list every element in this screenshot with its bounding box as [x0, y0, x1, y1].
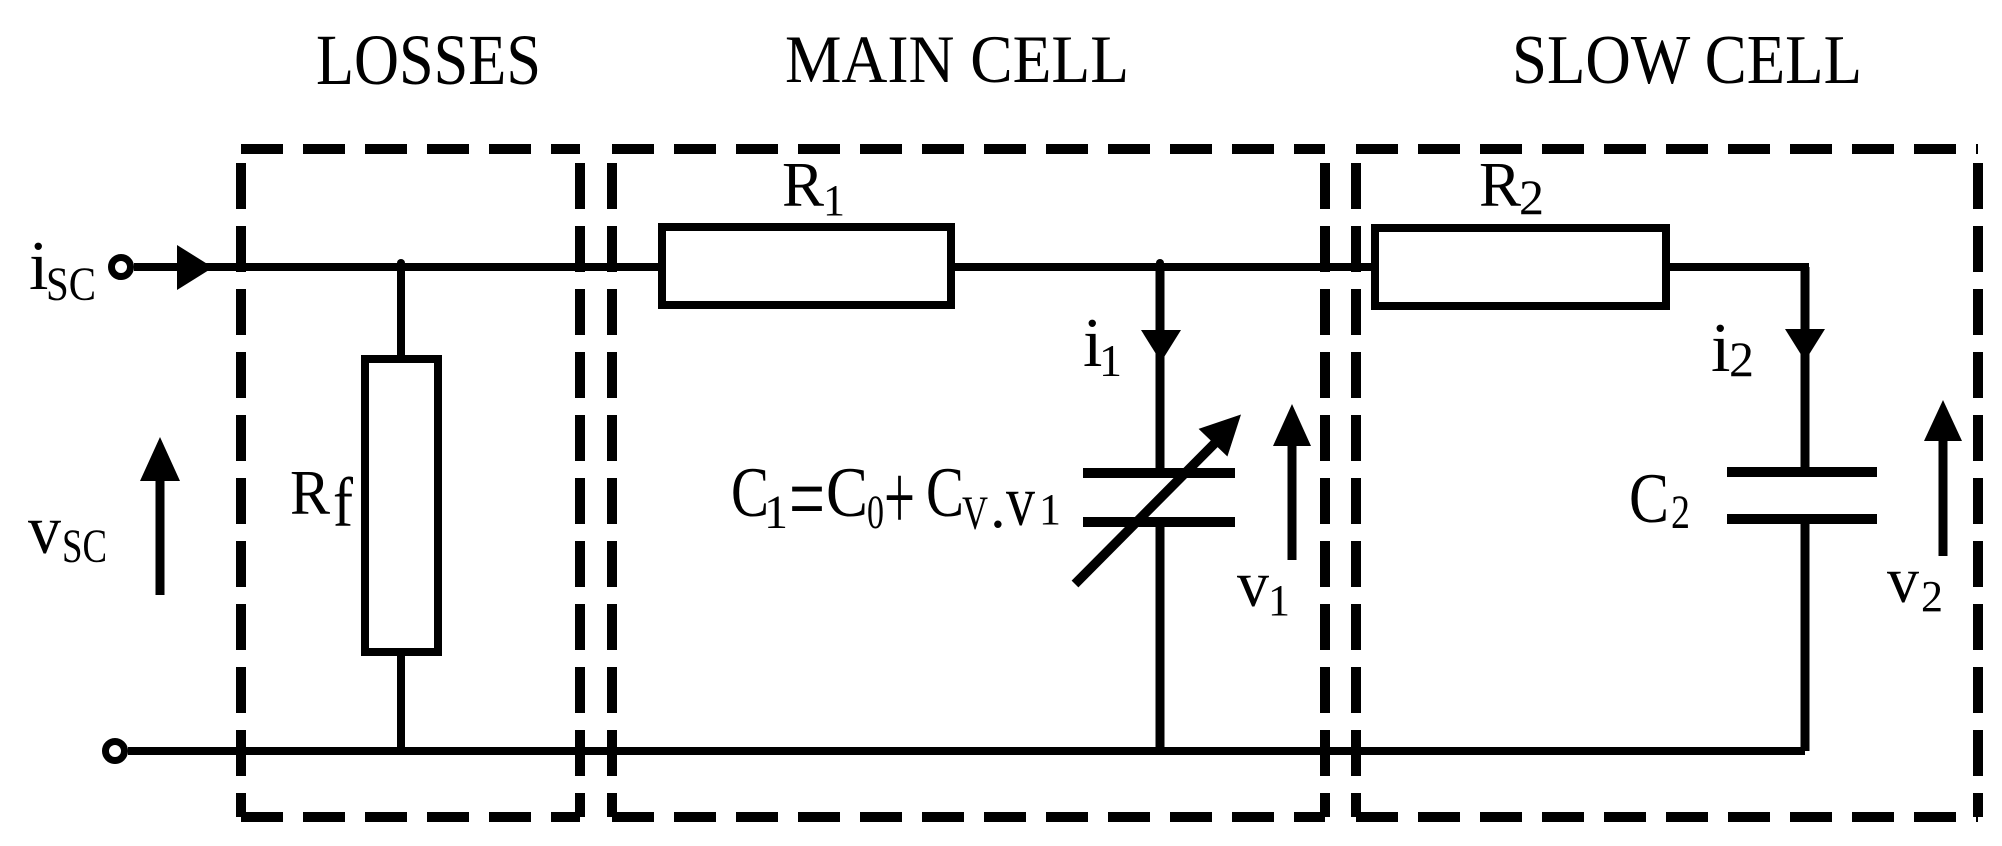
terminal top-left — [112, 258, 131, 277]
resistor Rf — [365, 359, 438, 652]
junction Rf node — [397, 259, 405, 267]
svg-text:1: 1 — [1268, 576, 1290, 625]
svg-text:1: 1 — [823, 176, 845, 225]
svg-text:SC: SC — [62, 520, 107, 573]
wire C2 upper — [1801, 267, 1810, 472]
svg-text:2: 2 — [1729, 331, 1754, 387]
junction C1 node — [1156, 259, 1164, 267]
wire top segment 2 — [951, 263, 1375, 271]
wire C1 lower — [1156, 522, 1165, 751]
capacitor C1 plate top — [1083, 468, 1235, 478]
svg-text:f: f — [333, 465, 354, 542]
svg-text:R: R — [782, 150, 824, 220]
svg-text:2: 2 — [1921, 572, 1943, 621]
arrow vSC — [156, 478, 165, 595]
arrow v2 — [1939, 438, 1948, 556]
capacitor C2 plate top — [1727, 467, 1877, 477]
svg-text:1: 1 — [1039, 485, 1061, 534]
svg-text:MAIN CELL: MAIN CELL — [785, 21, 1129, 97]
svg-text:v: v — [1887, 544, 1919, 617]
svg-text:V: V — [962, 487, 988, 540]
variable capacitor arrow C1 — [1075, 441, 1217, 584]
svg-text:v: v — [1006, 461, 1035, 541]
svg-text:1: 1 — [764, 486, 788, 539]
resistor R1 — [662, 227, 951, 305]
wire top segment 1 — [134, 263, 662, 271]
box SLOW CELL (dashed) — [1356, 149, 1978, 817]
resistor R2 — [1375, 228, 1666, 306]
svg-text:0: 0 — [867, 486, 884, 539]
svg-text:C: C — [926, 454, 964, 532]
svg-text:2: 2 — [1519, 169, 1544, 225]
arrow i1 — [1141, 330, 1181, 362]
svg-text:SLOW CELL: SLOW CELL — [1512, 22, 1862, 99]
arrow v1 — [1288, 442, 1297, 560]
svg-text:v: v — [1237, 548, 1269, 621]
svg-text:=: = — [789, 445, 825, 552]
input current arrow — [177, 245, 213, 290]
svg-text:i: i — [1711, 310, 1730, 387]
wire C1 upper — [1156, 267, 1165, 473]
wire C2 lower — [1801, 519, 1810, 751]
terminal bottom-left — [106, 742, 125, 761]
svg-text:R: R — [1479, 150, 1521, 220]
box MAIN CELL (dashed) — [612, 149, 1325, 817]
arrow i2 — [1785, 329, 1825, 361]
svg-text:C: C — [826, 454, 868, 532]
box LOSSES (dashed) — [241, 149, 580, 817]
svg-text:+: + — [884, 446, 915, 550]
svg-text:SC: SC — [46, 258, 96, 311]
wire bottom — [128, 747, 1805, 755]
svg-text:v: v — [28, 492, 61, 569]
svg-text:.: . — [990, 471, 1006, 541]
wire Rf bottom — [397, 652, 405, 751]
svg-text:LOSSES: LOSSES — [316, 20, 541, 100]
svg-text:2: 2 — [1671, 486, 1690, 539]
wire Rf top — [397, 267, 405, 359]
wire top segment 3 — [1666, 263, 1809, 271]
svg-text:R: R — [290, 458, 330, 528]
capacitor C1 plate bottom — [1083, 517, 1235, 527]
svg-text:C: C — [1629, 460, 1669, 538]
svg-text:1: 1 — [1099, 335, 1122, 386]
capacitor C2 plate bottom — [1727, 514, 1877, 524]
